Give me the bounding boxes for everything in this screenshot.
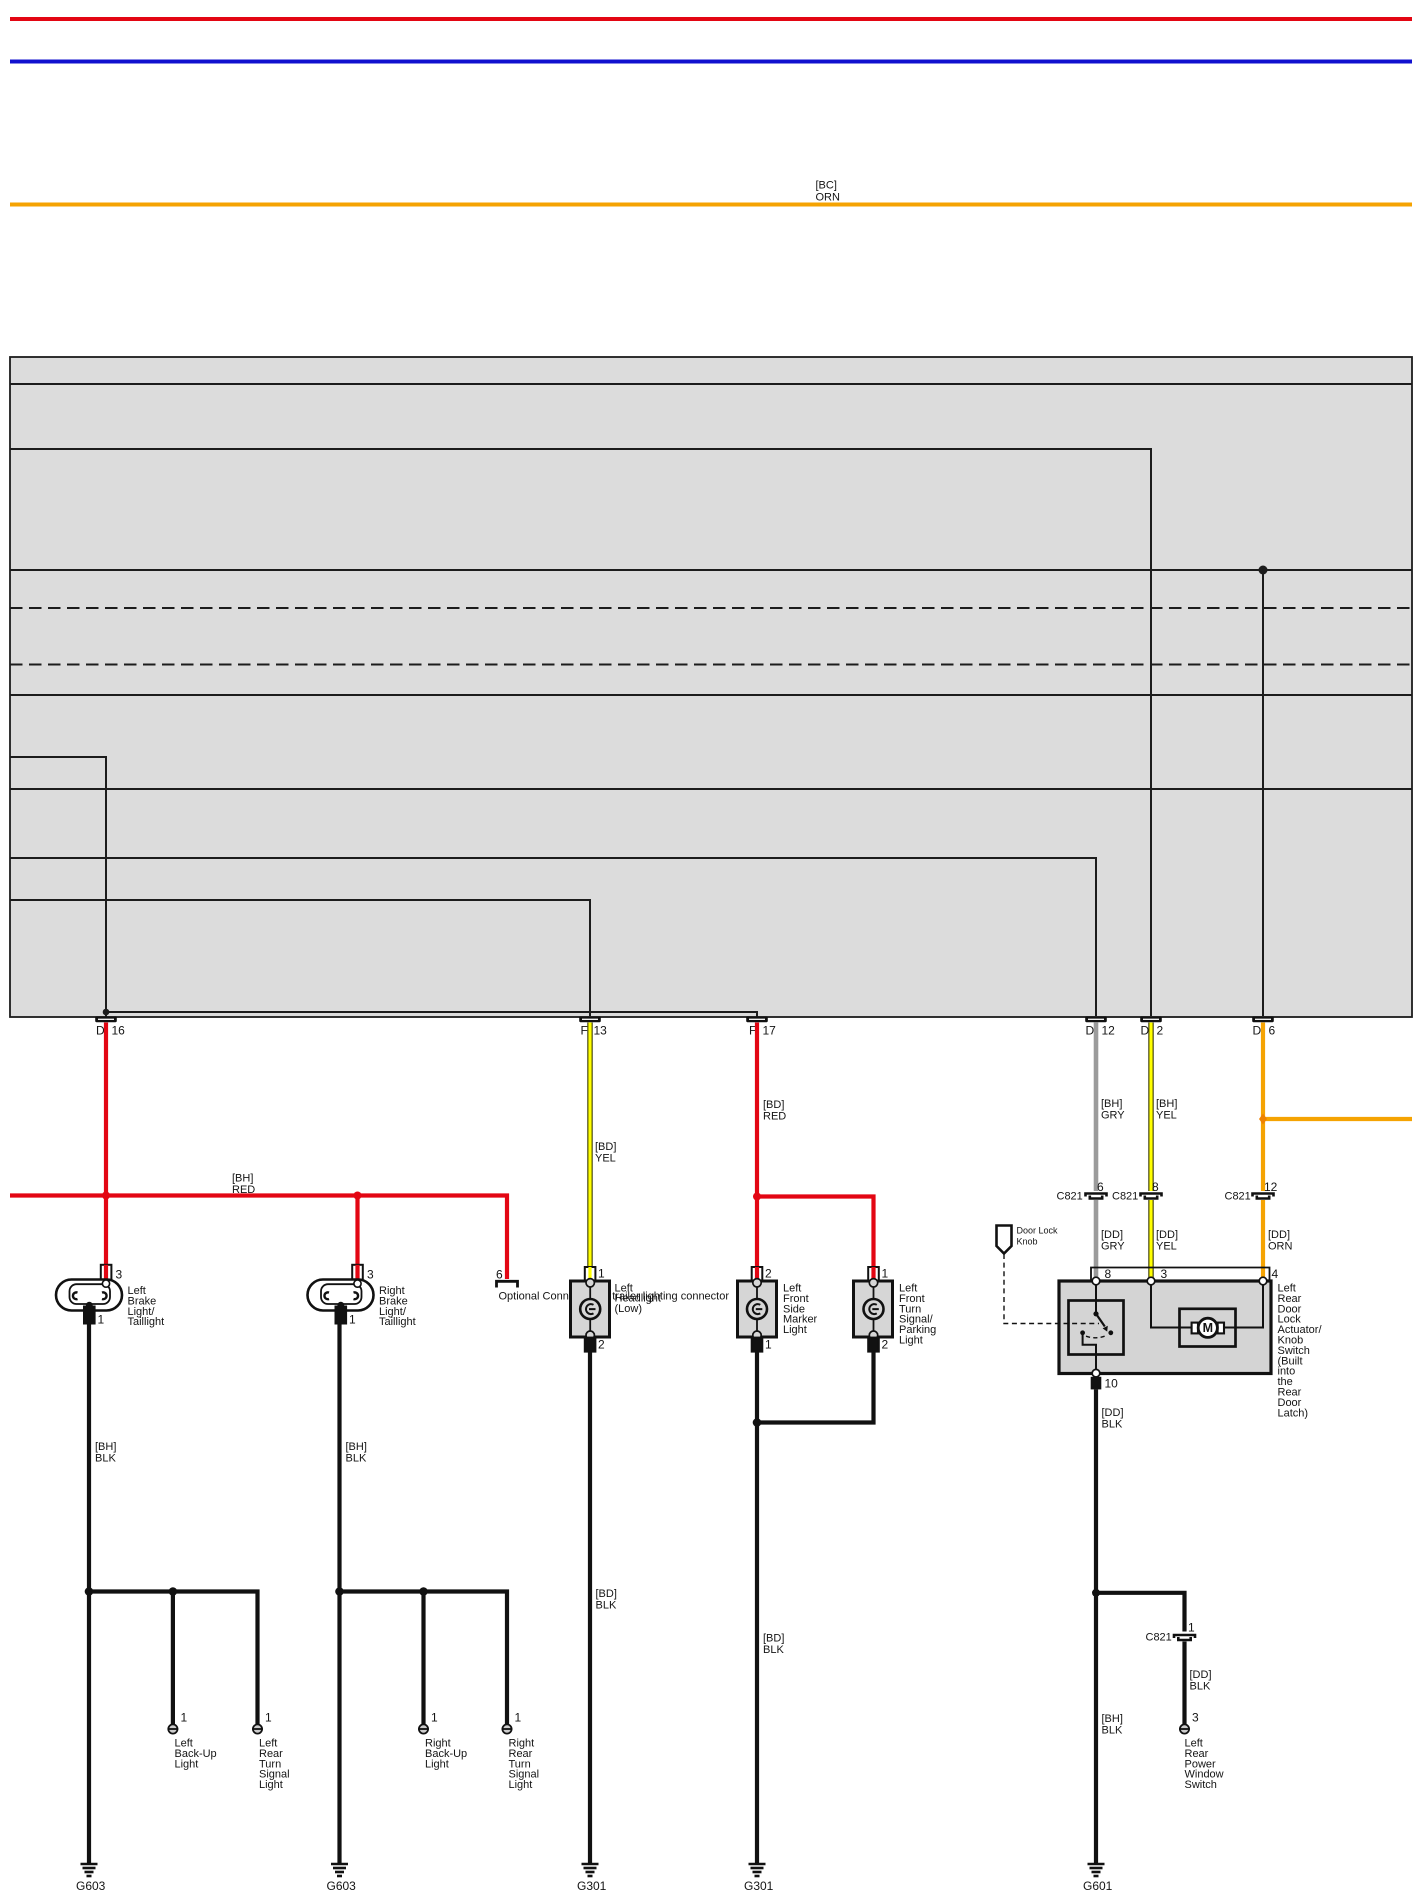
wire red branch to turn signal	[757, 1197, 874, 1267]
svg-text:BLK: BLK	[95, 1453, 116, 1465]
wire row 1	[10, 383, 1412, 385]
svg-text:8: 8	[1105, 1267, 1112, 1281]
motor feed from pin 4	[1236, 1285, 1264, 1328]
filament inner outline	[70, 1284, 111, 1304]
svg-text:1: 1	[882, 1267, 889, 1281]
svg-text:[DD]: [DD]	[1268, 1229, 1290, 1241]
switch sub-box	[1069, 1301, 1124, 1355]
socket circle top	[586, 1279, 594, 1287]
svg-text:[DD]: [DD]	[1101, 1229, 1123, 1241]
svg-text:[DD]: [DD]	[1156, 1229, 1178, 1241]
svg-text:GRY: GRY	[1101, 1241, 1125, 1253]
svg-text:YEL: YEL	[1156, 1110, 1177, 1122]
wire drop to Left Back-Up Light	[171, 1592, 175, 1725]
svg-text:2: 2	[598, 1338, 605, 1352]
node junction on row 3 at D6 riser	[1259, 566, 1268, 575]
wire [BH] BLK left bulb to ground	[87, 1323, 91, 1864]
wire [BH] YEL from D2 down	[1148, 1023, 1153, 1192]
connector D 12	[1085, 1016, 1115, 1037]
svg-text:Light: Light	[175, 1758, 199, 1770]
wire branch to C821 pin 1	[1096, 1593, 1185, 1632]
switch blade	[1096, 1314, 1105, 1327]
svg-text:[BH]: [BH]	[95, 1441, 116, 1453]
connector D 16	[95, 1016, 125, 1037]
wire [DD] BLK to window switch	[1182, 1642, 1186, 1725]
svg-text:[BD]: [BD]	[595, 1141, 616, 1153]
svg-text:Taillight: Taillight	[128, 1316, 165, 1328]
svg-text:ORN: ORN	[1268, 1241, 1293, 1253]
svg-text:F: F	[581, 1024, 588, 1038]
node junction left branch	[85, 1587, 94, 1596]
wire row 6	[10, 694, 1412, 696]
pin 1 connector	[84, 1307, 95, 1324]
pin 3 connector	[101, 1265, 112, 1283]
wire branch to back-up / turn lights	[89, 1592, 258, 1725]
wire [BH] BLK right bulb to ground	[337, 1323, 341, 1864]
svg-text:16: 16	[112, 1024, 126, 1038]
motor M1 housing	[1180, 1309, 1236, 1347]
svg-text:1: 1	[265, 1711, 272, 1725]
wire drop to Right Back-Up Light	[421, 1592, 425, 1725]
svg-text:BLK: BLK	[763, 1644, 784, 1656]
socket circle bottom	[753, 1331, 761, 1339]
motor brush right	[1223, 1327, 1235, 1329]
svg-text:3: 3	[1192, 1711, 1199, 1725]
svg-text:10: 10	[1105, 1377, 1119, 1391]
motor circle	[1198, 1318, 1217, 1337]
svg-text:Door Lock: Door Lock	[1017, 1226, 1059, 1236]
pin socket circle 10	[1092, 1369, 1100, 1377]
connector C821 pin 12 (orange wire)	[1225, 1180, 1278, 1203]
svg-text:13: 13	[594, 1024, 608, 1038]
wire row 9 (turns down to D 12)	[10, 858, 1096, 1016]
svg-text:3: 3	[1161, 1267, 1168, 1281]
svg-text:12: 12	[1264, 1180, 1278, 1194]
socket circle bottom	[337, 1302, 344, 1309]
svg-text:12: 12	[1102, 1024, 1116, 1038]
svg-text:[BH]: [BH]	[1101, 1098, 1122, 1110]
svg-text:8: 8	[1152, 1180, 1159, 1194]
wire red bus to optional connector	[10, 1196, 507, 1280]
svg-text:G603: G603	[327, 1879, 357, 1893]
wire red branch to right bulb	[355, 1196, 359, 1267]
switch contact right	[1108, 1330, 1113, 1335]
socket circle bottom	[586, 1331, 594, 1339]
svg-text:G301: G301	[577, 1879, 607, 1893]
svg-text:C821: C821	[1146, 1632, 1172, 1644]
component name Left Rear Door Lock Actuator	[1278, 1283, 1323, 1420]
wire [DD] ORN below C821	[1261, 1200, 1265, 1278]
wire row 10 (turns down to F 13)	[10, 900, 590, 1016]
door lock knob symbol	[997, 1226, 1059, 1254]
svg-text:[BH]: [BH]	[1102, 1713, 1123, 1725]
svg-text:Switch: Switch	[1185, 1779, 1217, 1791]
motor feed from pin 3	[1151, 1285, 1180, 1328]
bulb circle	[864, 1299, 884, 1319]
connector D 2	[1140, 1016, 1163, 1037]
component name Left Rear Power Window Switch	[1185, 1738, 1224, 1792]
switch output path	[1083, 1333, 1096, 1370]
node orange junction diamond	[1259, 1114, 1267, 1125]
svg-text:2: 2	[882, 1338, 889, 1352]
bulb circle	[747, 1299, 767, 1319]
filament curl left	[324, 1292, 329, 1299]
svg-text:ORN: ORN	[816, 191, 841, 203]
svg-text:1: 1	[1188, 1621, 1195, 1635]
wire [DD] GRY below C821	[1094, 1200, 1099, 1278]
svg-text:BLK: BLK	[596, 1600, 617, 1612]
svg-text:D: D	[96, 1024, 105, 1038]
wire bus RED (top power rail)	[10, 17, 1412, 21]
wire dashed row 5	[10, 664, 1412, 666]
wire [BH] RED from D16 down	[104, 1023, 108, 1267]
svg-text:1: 1	[515, 1711, 522, 1725]
connector C821 pin 1	[1146, 1621, 1196, 1644]
svg-text:[BD]: [BD]	[763, 1633, 784, 1645]
svg-text:[BH]: [BH]	[346, 1441, 367, 1453]
connector strip above door lock unit	[1091, 1268, 1270, 1282]
node red junction at right bulb branch	[354, 1192, 362, 1200]
svg-text:[DD]: [DD]	[1102, 1407, 1124, 1419]
ground G601	[1083, 1864, 1113, 1893]
wire bus ORN [BC]	[10, 203, 1412, 207]
svg-text:6: 6	[1097, 1180, 1104, 1194]
svg-text:BLK: BLK	[346, 1453, 367, 1465]
svg-text:2: 2	[765, 1267, 772, 1281]
connector Optional trailer pin 6	[496, 1268, 729, 1303]
node red junction at side marker	[753, 1193, 761, 1201]
svg-text:Latch): Latch)	[1278, 1407, 1309, 1419]
wire bus BLU (top rail)	[10, 60, 1412, 64]
connector C821 pin 8 (yellow wire)	[1112, 1180, 1162, 1203]
svg-text:G603: G603	[76, 1879, 106, 1893]
socket circle bottom	[869, 1331, 877, 1339]
svg-text:BLK: BLK	[1102, 1419, 1123, 1431]
lamp L4 Left Front Side Marker Light	[738, 1267, 818, 1352]
ground G603 left	[76, 1864, 106, 1893]
wire [BD] RED from F17 down	[755, 1023, 759, 1267]
wire side marker down	[755, 1352, 759, 1864]
wire turn signal joins side marker	[757, 1352, 874, 1423]
filament curl right	[354, 1292, 359, 1299]
svg-text:1: 1	[349, 1313, 356, 1327]
svg-text:[BH]: [BH]	[232, 1173, 253, 1185]
wire dashed row 4	[10, 607, 1412, 609]
wire dashed knob linkage	[1004, 1254, 1099, 1324]
node red junction at left bulb	[102, 1192, 110, 1200]
wire [DD] BLK from pin 10	[1094, 1389, 1098, 1592]
svg-text:Light: Light	[783, 1324, 807, 1336]
svg-text:1: 1	[98, 1313, 105, 1327]
socket circle bottom	[86, 1302, 93, 1309]
svg-text:D: D	[1141, 1024, 1150, 1038]
svg-text:(Low): (Low)	[615, 1303, 643, 1315]
node junction back-up light	[169, 1587, 178, 1596]
unit U1 Left Rear Door Lock Actuator/Knob Switch	[1059, 1281, 1271, 1374]
pin 1 connector	[336, 1307, 347, 1324]
svg-text:4: 4	[1272, 1267, 1279, 1281]
switch feed wire	[1095, 1285, 1097, 1314]
pin 10 connector	[1091, 1377, 1102, 1390]
node junction right branch	[335, 1587, 344, 1596]
node junction marker/turn	[753, 1418, 762, 1427]
pin socket circle 4	[1259, 1277, 1267, 1285]
svg-text:YEL: YEL	[595, 1153, 616, 1165]
wire orange branch to page edge	[1263, 1117, 1412, 1121]
svg-text:6: 6	[496, 1268, 503, 1282]
lamp L3 Left Headlight (Low)	[571, 1267, 661, 1352]
svg-text:RED: RED	[763, 1111, 786, 1123]
svg-text:3: 3	[116, 1268, 123, 1282]
svg-text:Taillight: Taillight	[379, 1316, 416, 1328]
lamp L1 Left Brake Light/Taillight	[56, 1265, 164, 1328]
svg-text:G301: G301	[744, 1879, 774, 1893]
bulb capsule	[308, 1280, 374, 1311]
svg-text:Knob: Knob	[1017, 1237, 1038, 1247]
wire [BC] ORN from D6 down	[1261, 1023, 1265, 1192]
wire [BH] GRY from D12 down	[1094, 1023, 1099, 1192]
svg-text:Light: Light	[899, 1335, 923, 1347]
wire [BD] YEL from F13 down	[587, 1023, 592, 1269]
svg-text:Light: Light	[425, 1758, 449, 1770]
ground G301 headlight	[577, 1864, 607, 1893]
node junction D16 drop	[103, 1009, 110, 1016]
svg-text:YEL: YEL	[1156, 1241, 1177, 1253]
wire link D16 node to F17	[106, 1012, 757, 1017]
filament inner outline	[321, 1284, 362, 1304]
svg-text:Light: Light	[259, 1779, 283, 1791]
switch contact left	[1080, 1330, 1085, 1335]
bulb capsule	[56, 1280, 122, 1311]
motor brush left	[1180, 1327, 1193, 1329]
svg-text:Light: Light	[509, 1779, 533, 1791]
svg-text:C821: C821	[1057, 1191, 1083, 1203]
svg-text:G601: G601	[1083, 1879, 1113, 1893]
socket circle top	[354, 1280, 361, 1287]
connector F 17	[746, 1016, 776, 1037]
socket circle top	[753, 1279, 761, 1287]
svg-text:[BD]: [BD]	[763, 1099, 784, 1111]
node junction right back-up	[419, 1587, 428, 1596]
svg-text:BLK: BLK	[1102, 1725, 1123, 1737]
svg-text:M: M	[1203, 1321, 1213, 1335]
wire row 3 (feeds D 6)	[10, 569, 1412, 571]
lamp L2 Right Brake Light/Taillight	[308, 1265, 416, 1328]
bulb circle	[580, 1299, 600, 1319]
svg-text:3: 3	[367, 1268, 374, 1282]
wire [DD] YEL below C821	[1148, 1200, 1153, 1278]
wire D6 riser	[1262, 570, 1264, 1016]
switch throw dashed arc	[1086, 1335, 1107, 1338]
svg-text:[BD]: [BD]	[596, 1588, 617, 1600]
connector F 13	[579, 1016, 607, 1037]
svg-text:1: 1	[431, 1711, 438, 1725]
svg-text:C821: C821	[1112, 1191, 1138, 1203]
pin socket circle 3	[1147, 1277, 1155, 1285]
svg-text:17: 17	[763, 1024, 777, 1038]
harness band (gray region)	[10, 357, 1412, 1017]
lamp L5 Left Front Turn Signal/Parking Light	[854, 1267, 937, 1352]
ground G301 marker	[744, 1864, 774, 1893]
svg-text:[DD]: [DD]	[1190, 1669, 1212, 1681]
svg-text:6: 6	[1269, 1024, 1276, 1038]
pin 3 connector	[352, 1265, 363, 1283]
node junction to window switch branch	[1092, 1589, 1100, 1597]
svg-text:BLK: BLK	[1190, 1681, 1211, 1693]
switch pivot	[1093, 1311, 1098, 1316]
svg-text:GRY: GRY	[1101, 1110, 1125, 1122]
svg-text:C821: C821	[1225, 1191, 1251, 1203]
filament curl left	[73, 1292, 78, 1299]
ground G603 right	[327, 1864, 357, 1893]
connector C821 pin 6 (gray wire)	[1057, 1180, 1107, 1203]
wire [BD] BLK headlight to ground	[588, 1352, 592, 1864]
socket circle top	[869, 1279, 877, 1287]
svg-text:[BH]: [BH]	[1156, 1098, 1177, 1110]
svg-text:D: D	[1253, 1024, 1262, 1038]
filament curl right	[102, 1292, 107, 1299]
wire row 7 (turns down to D 16)	[10, 757, 106, 1012]
socket circle top	[102, 1280, 109, 1287]
svg-text:1: 1	[765, 1338, 772, 1352]
wire row 2 (turns down to D 2)	[10, 449, 1151, 1016]
svg-text:1: 1	[598, 1267, 605, 1281]
svg-text:1: 1	[181, 1711, 188, 1725]
connector D 6	[1252, 1016, 1275, 1037]
svg-text:D: D	[1086, 1024, 1095, 1038]
wire [BH] BLK to G601	[1094, 1593, 1098, 1864]
wire branch to right back-up / turn lights	[340, 1592, 508, 1725]
svg-text:[BC]: [BC]	[816, 180, 837, 192]
wire row 8	[10, 788, 1412, 790]
svg-text:2: 2	[1157, 1024, 1164, 1038]
pin socket circle 8	[1092, 1277, 1100, 1285]
